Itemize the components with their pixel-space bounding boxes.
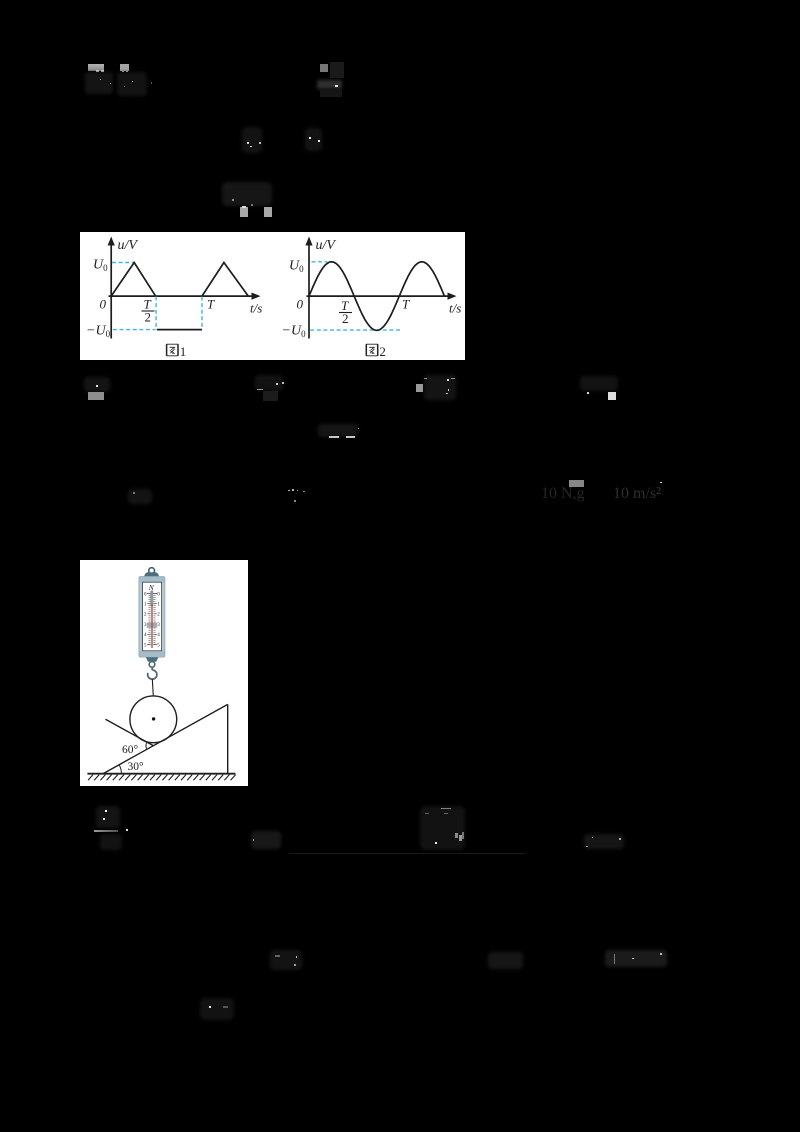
spring scale bottom cap [146,657,159,662]
faint row5 mid dots [288,490,290,492]
caption fig2 glyph [366,344,377,356]
spring scale top band [139,577,164,583]
graph2 y-axis arrowhead [305,237,312,246]
graph1 y-axis [110,243,112,339]
spring scale rod [150,590,153,606]
svg-text:2: 2 [145,310,152,325]
spring scale zero line [147,592,157,594]
faint formula row 4 [318,424,358,437]
option D cluster [580,376,618,391]
graph1 x-axis arrowhead [252,293,261,300]
graph2 x-axis arrowhead [448,293,457,300]
spring scale hook [148,667,157,679]
60 degree arc [145,742,148,749]
incline right vertical edge [227,704,229,773]
faint line3 grey block left [240,207,248,217]
string [152,679,153,696]
faint fraction bottom2 [200,998,234,1020]
faint cluster right of circle [305,128,322,151]
graph1 dashed vertical at T [201,297,203,330]
graph2 sine waveform [309,262,444,331]
faint sqrt cluster [420,806,465,850]
spring scale top cap [144,572,159,576]
faint fraction left bottom [96,806,120,828]
option C cluster [424,375,456,400]
graph2 dashed line U0 level [312,261,328,263]
spring scale bottom band [139,651,164,657]
graph2 dashed line -U0 level [310,329,400,331]
spring scale top ring [149,568,155,574]
graph1 triangle waveform segment 2 [202,263,248,297]
faint cluster circle2 [242,127,262,153]
faint line3 grey block right [264,207,272,217]
spring scale red pointer line [151,605,152,648]
ground line [87,773,235,775]
faint fraction block mid-top [320,64,328,72]
option A cluster [84,377,110,392]
spring scale minor ticks [149,595,156,642]
spring scale body [139,577,165,658]
svg-text:t/s: t/s [449,301,461,316]
svg-text:T: T [402,297,410,312]
graph1 label T/2 fraction [144,297,152,325]
faint row5 left blob [128,489,152,504]
faint char block 1 white dashes [96,70,99,72]
svg-text:2: 2 [379,344,386,359]
faint long underline [289,853,525,855]
svg-text:0: 0 [100,297,107,312]
ball [130,696,177,743]
svg-text:U0: U0 [93,258,108,274]
faint line3 cluster [222,182,272,206]
svg-text:−U0: −U0 [86,324,111,340]
svg-text:u/V: u/V [118,238,139,253]
faint row5 right grey block [569,480,584,488]
svg-text:−U0: −U0 [282,324,307,340]
svg-text:2: 2 [342,311,349,326]
faint row5 right text [541,485,585,503]
svg-text:t/s: t/s [250,301,262,316]
figure box 2: spring scale and ball on incline [80,560,248,786]
faint row bottom1 right [605,950,667,967]
spring scale face [143,582,162,651]
30 degree arc [119,765,121,774]
graph1 triangle waveform segment 1 [111,263,155,297]
faint fraction bar [94,830,118,832]
svg-text:U0: U0 [289,259,304,275]
figure box 1: voltage waveform graphs [80,232,465,360]
faint A. text bottom [251,831,281,849]
option D light block [608,392,616,400]
graph1 x-axis [109,295,254,297]
faint row bottom1 left [270,950,302,970]
spring scale numbers [144,592,160,648]
graph1 y-axis arrowhead [108,237,115,246]
svg-text:1: 1 [180,344,187,359]
ground hatching [88,775,236,781]
ball center dot [152,717,155,720]
caption fig1 glyph [167,344,178,356]
svg-text:0: 0 [297,297,304,312]
incline hypotenuse [103,704,227,773]
graph1 dashed line U0 level [112,262,134,264]
svg-text:u/V: u/V [316,238,337,253]
graph2 x-axis [307,295,450,297]
faint char block 2 [120,64,129,72]
graph2 label T/2 fraction [341,298,349,326]
faint char block 1 [88,64,104,72]
spring scale major ticks [147,604,157,645]
faint cluster right bottom [584,834,624,849]
faint glyph blob row1 [85,72,113,94]
svg-text:30°: 30° [128,761,145,773]
graph1 dashed line -U0 level [113,329,156,331]
left tangent line [106,719,154,745]
svg-text:60°: 60° [122,744,139,756]
faint row bottom1 mid [488,952,523,969]
spring scale indicator at 3 [147,623,157,628]
option B cluster [255,375,283,391]
svg-text:T: T [207,297,215,312]
spring scale bottom ring [149,662,155,668]
graph1 dashed vertical at T/2 [155,297,157,330]
graph1 square negative segment [157,329,202,331]
graph2 y-axis [308,243,310,339]
